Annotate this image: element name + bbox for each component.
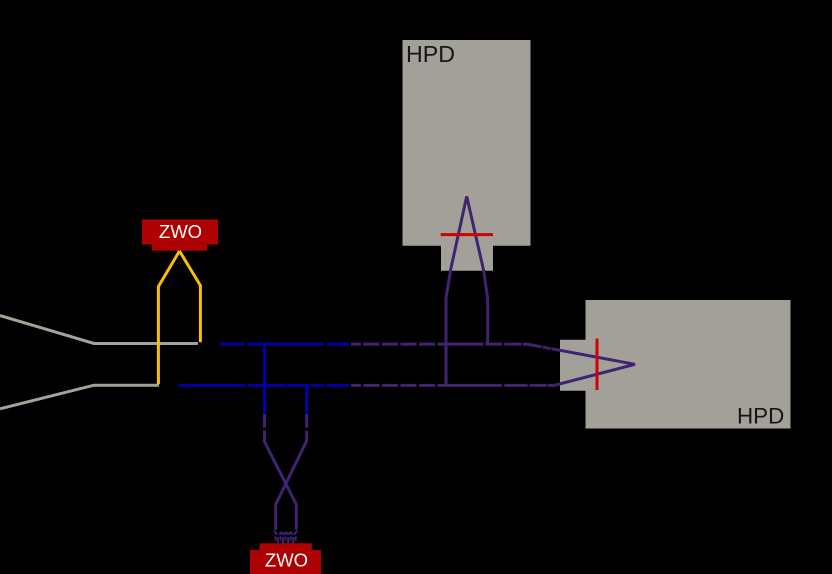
reflected beam to ZWO1 right ray (orange wire) — [180, 251, 201, 342]
svg-text:ZWO: ZWO — [159, 221, 202, 242]
pickoff ray to ZWO2 from bottom edge (blue wire) — [305, 385, 308, 414]
reflected beam to ZWO1 left ray (orange wire) — [158, 251, 179, 384]
telescope beam bottom edge (gray wire) — [0, 385, 159, 409]
converging cone into HPD2 bottom ray (purple wire) — [554, 364, 635, 385]
camera ZWO1 body — [142, 220, 218, 251]
detector HPD2 body — [560, 300, 791, 429]
focal plane marker in HPD2 (red) — [596, 339, 599, 391]
dash gaps in top blue segment — [244, 342, 326, 345]
telescope beam top edge (gray wire) — [0, 316, 198, 344]
main beam top edge blue segment (wire) — [220, 343, 349, 346]
cone into HPD1 right ray (purple wire) — [467, 196, 488, 344]
crossing ray to ZWO2 from bottom edge (purple wire) — [276, 415, 307, 530]
detector HPD1 body — [403, 40, 531, 271]
dash gaps in top purple segment — [483, 342, 523, 345]
svg-text:HPD: HPD — [406, 41, 455, 67]
svg-text:ZWO: ZWO — [265, 550, 308, 571]
main beam bottom edge purple segment (wire) — [351, 384, 441, 387]
dash gaps in bottom blue segment — [245, 384, 326, 387]
cone into HPD1 left ray (purple wire) — [446, 196, 467, 385]
focal plane marker in HPD1 (red) — [441, 233, 493, 236]
converging cone into HPD2 top ray (purple wire) — [527, 344, 635, 364]
crossing ray to ZWO2 from top edge (purple wire) — [265, 414, 297, 530]
camera ZWO2 body — [250, 543, 321, 574]
main beam top edge purple segment (wire) — [351, 343, 441, 346]
diverging micro-rays onto ZWO2 sensor (purple dashes) — [274, 531, 297, 544]
main beam bottom edge blue segment (wire) — [179, 384, 350, 387]
dash nicks on HPD2 top cone ray — [541, 345, 552, 351]
svg-text:HPD: HPD — [737, 403, 784, 428]
pickoff ray to ZWO2 from top edge (blue wire) — [263, 344, 266, 414]
dash gaps in bottom purple segment — [502, 384, 548, 387]
